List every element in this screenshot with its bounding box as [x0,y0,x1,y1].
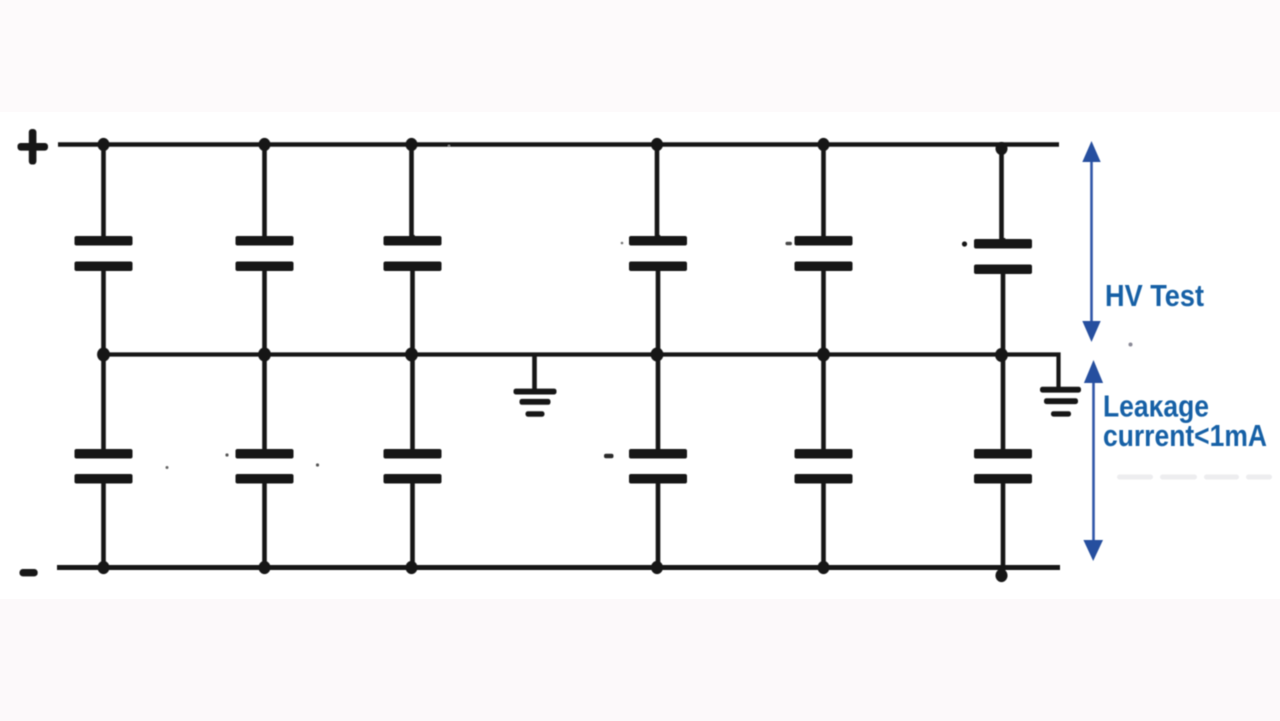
svg-text:HV Test: HV Test [1105,278,1204,313]
svg-text:current<1mA: current<1mA [1103,418,1267,453]
